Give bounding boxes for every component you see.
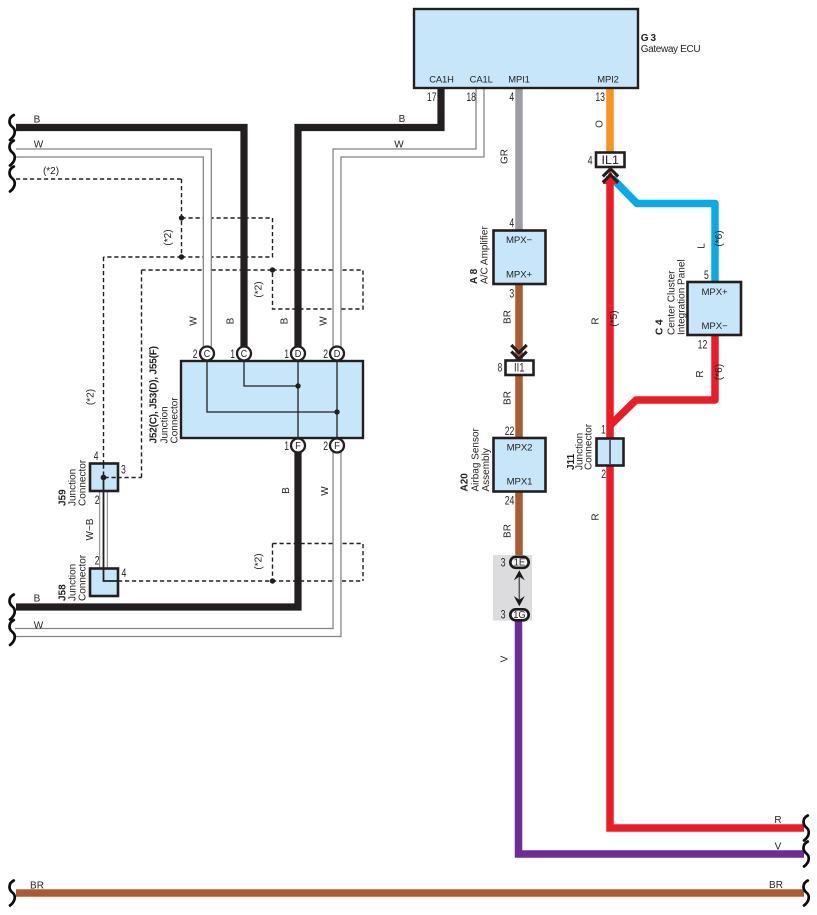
svg-text:(*6): (*6) [714,230,725,246]
svg-text:F: F [334,441,340,452]
svg-text:Assembly: Assembly [481,448,492,491]
svg-text:2: 2 [323,348,328,362]
J59 internal dashed wire [104,465,118,478]
svg-text:R: R [774,815,781,826]
svg-text:3: 3 [509,287,514,301]
A/C amplifier A8 box [494,231,546,285]
gateway ECU G3 box [414,9,638,88]
svg-text:B: B [280,317,291,324]
junction dot on dashed path B [270,267,275,272]
svg-text:A/C Amplifier: A/C Amplifier [480,226,491,284]
svg-text:22: 22 [505,425,515,439]
wire R pointed tip under chevron [603,171,618,185]
break BR right [803,881,808,906]
J11 divider [609,440,611,464]
svg-text:MPI2: MPI2 [597,74,618,85]
svg-text:C: C [204,349,211,361]
svg-text:W: W [394,140,404,151]
svg-text:3: 3 [501,556,506,570]
svg-text:MPX2: MPX2 [507,442,533,453]
connector oval 1E [510,557,528,568]
svg-text:R: R [591,317,602,324]
svg-text:(*2): (*2) [86,389,97,405]
svg-text:MPX+: MPX+ [702,287,728,298]
svg-text:1: 1 [284,348,289,362]
break BR bottom-left [9,881,14,906]
svg-text:MPX1: MPX1 [507,476,533,487]
svg-text:D: D [295,349,302,360]
svg-text:1G: 1G [513,610,525,621]
junction connector J11 box [597,439,624,466]
wire dashed path B: J59 pin3 up to rect2 [104,270,364,478]
svg-text:BR: BR [503,310,514,324]
wire labels above J52 [0,0,1,1]
svg-text:R: R [695,370,706,377]
svg-text:2: 2 [323,440,328,454]
svg-text:BR: BR [30,881,44,892]
svg-text:4: 4 [509,91,514,105]
wire V purple (1G down to right edge) [519,621,805,855]
J58 internal wire [104,569,118,581]
svg-text:BR: BR [503,524,514,538]
airbag sensor A20 box [494,438,546,492]
svg-text:V: V [500,655,511,662]
svg-text:2: 2 [95,554,100,568]
svg-text:18: 18 [466,91,476,105]
svg-text:17: 17 [427,91,437,105]
svg-text:O: O [595,120,606,128]
wire O orange (G3 MPI2 to IL1) [606,88,614,153]
wire R main (IL1 chevron down through J11 to right edge) [610,176,804,828]
svg-text:MPI1: MPI1 [508,74,529,85]
svg-text:1E: 1E [514,557,526,568]
svg-text:CA1L: CA1L [470,74,493,85]
break W top-left [9,141,14,166]
wire BR (A20 MPX1 to 1E) [515,491,523,557]
break R right [803,816,808,841]
pin circle 1D [291,347,305,361]
svg-text:5: 5 [704,269,709,283]
wire L blue (IL1 to C4 pin 5) [612,178,715,283]
svg-text:B: B [34,594,41,605]
J52 internal lines [207,360,337,439]
wire BR (A8 MPX+ to II1) [515,284,523,362]
svg-text:W: W [189,316,200,326]
svg-text:Connector: Connector [170,397,181,444]
svg-text:MPX+: MPX+ [506,270,532,281]
svg-text:W: W [34,621,44,632]
svg-text:A20: A20 [460,473,471,492]
svg-text:II1: II1 [514,362,525,375]
junction dot on dashed path A lower [179,254,184,259]
double arrow between 1E and 1G [514,570,525,606]
svg-text:R: R [591,513,602,520]
svg-text:V: V [775,842,782,853]
svg-text:4: 4 [509,217,514,231]
G3 pin numbers [427,91,605,105]
wire GR (G3 MPI1 to A8 MPX-) [515,88,523,231]
svg-text:BR: BR [503,391,514,405]
wire dashed path C: J58 pin4 to rect3 [118,544,363,582]
J59 internal dot [101,475,107,481]
svg-text:4: 4 [94,450,99,464]
svg-text:24: 24 [505,494,515,508]
svg-text:(*2): (*2) [254,553,265,569]
wire W (top-right, J52 pin 2D to G3 CA1L pin 18) hollow [337,87,480,349]
svg-text:GR: GR [500,149,511,164]
junction connector J52/J53/J55 box [181,361,363,438]
break B bottom-left [9,595,14,620]
pin circle 2D [330,347,344,361]
pin circle 2C [200,347,214,361]
svg-text:(*5): (*5) [609,310,620,326]
svg-text:3: 3 [501,608,506,622]
svg-text:B: B [34,115,41,126]
svg-text:BR: BR [769,880,783,891]
svg-text:L: L [697,243,708,249]
pin circle 2F [330,439,344,453]
svg-text:Integration Panel: Integration Panel [677,259,688,335]
junction connector J59 box [90,464,118,492]
svg-text:4: 4 [122,567,127,581]
svg-text:J52(C), J53(D), J55(F): J52(C), J53(D), J55(F) [149,346,160,443]
wire B (top-left to J52 pin 1C) [16,128,244,348]
wire W (top-left, to J52 pin 2C) hollow white wire [15,153,207,348]
svg-text:(*2): (*2) [43,166,59,177]
wire dashed path A: left edge to rect1 to J59 pin4 [16,179,273,478]
connector IL1 box [596,153,625,168]
svg-text:(*2): (*2) [163,229,174,245]
junction connector J58 box [90,569,118,597]
pin circle 1F [291,439,305,453]
break B top-left [9,115,14,140]
svg-text:MPX−: MPX− [702,321,728,332]
svg-text:1: 1 [230,348,235,362]
break W bottom-left [9,620,14,645]
J52 internal junction dot on pin 1D line [295,383,300,388]
connector shield 1E/1G gray block [493,555,532,621]
J59 internal W-B stripe [103,478,105,493]
svg-text:C: C [241,349,248,361]
break V right [803,842,808,867]
svg-text:2: 2 [193,348,198,362]
svg-text:2: 2 [601,468,606,482]
svg-text:A 8: A 8 [469,268,480,284]
svg-text:W: W [34,140,44,151]
svg-text:IL1: IL1 [602,153,620,167]
svg-text:12: 12 [698,338,708,352]
svg-text:Gateway ECU: Gateway ECU [641,44,701,55]
svg-text:Connector: Connector [78,459,89,506]
svg-text:13: 13 [595,91,605,105]
svg-text:CA1H: CA1H [429,74,454,85]
svg-text:B: B [399,114,406,125]
G3 pin name labels [429,74,619,85]
svg-text:MPX−: MPX− [506,235,532,246]
wire B (J52 pin 1D up to G3 CA1H pin 17) [298,88,441,347]
connector oval 1G [510,609,528,620]
svg-text:1: 1 [284,440,289,454]
svg-text:G 3: G 3 [641,33,657,44]
svg-text:4: 4 [588,154,593,168]
wire W-B between J59 and J58 [100,478,118,582]
svg-text:C 4: C 4 [655,319,666,335]
svg-text:Airbag Sensor: Airbag Sensor [471,427,482,491]
svg-text:(*6): (*6) [714,364,725,380]
junction dot on dashed path A upper [179,215,184,220]
svg-text:Connector: Connector [78,554,89,601]
chevron below IL1 (pointing up) [603,169,618,183]
connector II1 box [506,361,534,376]
pin circle 1C [237,347,251,361]
svg-text:1: 1 [601,423,606,437]
svg-text:B: B [281,487,292,494]
wire BR (bottom rail) [16,889,804,897]
wire BR (II1 to A20 MPX2) [515,375,523,439]
wire R branch (C4 pin 12 to main red) [610,335,715,426]
svg-text:W: W [319,316,330,326]
junction dot on dashed path C [270,578,275,583]
center cluster C4 box [688,282,742,335]
wire W (bottom, J52 pin 2F to left edge) hollow [15,450,337,633]
svg-text:(*2): (*2) [254,281,265,297]
break dashed top-left [9,167,14,192]
chevron above II1 (pointing down) [511,345,526,359]
svg-text:W−B: W−B [85,518,96,540]
svg-text:W: W [320,486,331,496]
svg-text:Connector: Connector [584,423,595,470]
svg-text:8: 8 [498,361,503,375]
svg-text:B: B [226,317,237,324]
J52 pin numbers [193,348,328,454]
svg-text:3: 3 [121,463,126,477]
J52 internal junction dot on pin 2D line [334,409,339,414]
svg-text:D: D [334,349,341,360]
wire B (J52 pin 1F down to left edge) [16,451,298,607]
svg-text:2: 2 [95,493,100,507]
svg-text:F: F [295,441,301,452]
